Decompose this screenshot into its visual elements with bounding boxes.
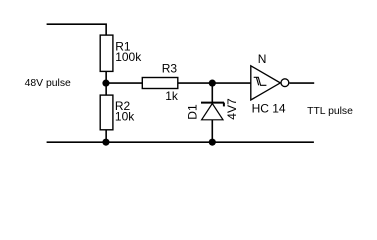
resistor R1 100k xyxy=(100,35,142,71)
resistor R3 1k xyxy=(142,62,179,103)
svg-text:48V pulse: 48V pulse xyxy=(25,78,71,89)
node A junction dot xyxy=(102,80,109,87)
wire R1 bottom to node A xyxy=(105,71,107,83)
wire R2 bottom to ground rail xyxy=(105,130,107,142)
junction dot ground rail at R2 xyxy=(102,139,109,146)
hysteresis symbol inside gate xyxy=(254,77,267,85)
wire bottom ground rail xyxy=(47,141,314,143)
wire gate output xyxy=(290,82,315,84)
junction dot ground rail at D1 xyxy=(209,139,216,146)
svg-text:R3: R3 xyxy=(162,62,178,76)
svg-text:1k: 1k xyxy=(165,89,179,103)
wire node A down to R2 xyxy=(105,83,107,95)
wire node A to R3 xyxy=(106,82,142,84)
svg-text:HC 14: HC 14 xyxy=(252,102,286,116)
svg-text:100k: 100k xyxy=(115,50,142,64)
svg-text:TTL pulse: TTL pulse xyxy=(307,106,353,117)
wire node B down to D1 cathode xyxy=(211,83,213,103)
zener diode D1 4V7 xyxy=(185,98,239,120)
wire D1 anode to ground rail xyxy=(211,120,213,142)
wire R3 to gate input through node B xyxy=(178,82,251,84)
svg-text:4V7: 4V7 xyxy=(225,98,239,120)
svg-text:N: N xyxy=(258,52,267,66)
wire top rail from 48V input to R1 xyxy=(47,24,107,35)
svg-text:10k: 10k xyxy=(115,110,135,124)
inversion bubble xyxy=(281,79,289,87)
node B junction dot xyxy=(209,80,216,87)
resistor R2 10k xyxy=(100,95,135,130)
inverter gate U1 HC14 (Schmitt trigger) xyxy=(251,52,289,116)
svg-text:D1: D1 xyxy=(185,104,199,120)
